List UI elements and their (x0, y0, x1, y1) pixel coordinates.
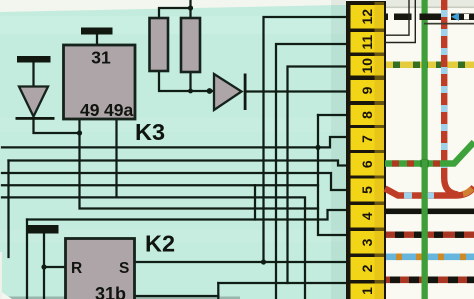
svg-text:K2: K2 (145, 231, 175, 257)
svg-text:8: 8 (359, 111, 375, 119)
wire ground stem to K3 pin 31 (96, 35, 98, 46)
junction dot S wire (261, 259, 266, 264)
wire H2 to pin 6 (9, 161, 350, 166)
junction dot diode V1 to pin49 (77, 130, 82, 135)
junction dot ground K2 (41, 264, 46, 269)
right page white background (384, 0, 474, 299)
wire ground stem to diode V1 (32, 63, 34, 87)
wire H4 (2, 184, 318, 186)
right panel: green vertical wire (422, 0, 428, 299)
wire K2 pin 31b (135, 295, 219, 297)
connector pin cell 5 (351, 179, 385, 202)
wire K2 pin S to pin 2 (135, 261, 350, 263)
diode V2 triangle (214, 74, 242, 110)
svg-text:31b: 31b (95, 284, 126, 299)
wire resistor R4 bottom (159, 71, 214, 91)
blue connector mark on black wire (451, 13, 459, 22)
svg-text:5: 5 (359, 186, 375, 194)
wire resistor R5 bottom (189, 72, 191, 91)
relay K3 box (64, 45, 136, 119)
svg-text:9: 9 (359, 86, 375, 94)
wire bottom drop (217, 283, 219, 299)
connector pin cell 6 (351, 153, 385, 176)
thin black line under dashed wire right part (424, 23, 474, 25)
wire H5 to pin 4 (2, 197, 305, 299)
connector pin cell 10 (351, 56, 385, 76)
wire left corner down (26, 220, 28, 299)
wire pin 11 long (276, 44, 349, 299)
green vertical over horizontals (redraw to sit on top) (422, 160, 428, 299)
left edge white sliver (0, 252, 2, 299)
svg-text:49a: 49a (104, 100, 133, 120)
junction dot H1 pin8 branch (315, 145, 320, 150)
wire H7 to pin 3 vertical (27, 210, 349, 220)
ground symbol G1 bar (17, 56, 51, 63)
bottom-left white page corner (0, 291, 12, 299)
wire diode V1 cathode stem (34, 119, 80, 134)
wire ground to K2 pin R (44, 266, 66, 268)
diode V1 triangle (19, 87, 48, 117)
junction dot resistor top (188, 5, 193, 10)
svg-text:11: 11 (359, 35, 375, 50)
right panel: red wire pin 3 with black dashes (386, 232, 474, 238)
svg-text:3: 3 (359, 238, 375, 246)
ground symbol G2 bar (above K3) (81, 28, 113, 35)
wire mid vertical (254, 185, 256, 219)
ground symbol G3 bar (above K2) (27, 225, 59, 234)
svg-text:4: 4 (359, 212, 375, 220)
connector X1 black frame (346, 1, 386, 299)
wire pin 12 long (264, 17, 350, 262)
right panel: black solid wire pin 4 (386, 209, 474, 215)
bottom-left page shadow (0, 297, 240, 299)
right panel: white wire pin 11 (outline) (385, 0, 415, 43)
scan light streaks (0, 16, 345, 34)
wire ground stem K2 down (43, 234, 45, 299)
diode V1 cathode bar (16, 117, 55, 120)
connector pin cell 2 (351, 257, 385, 280)
right panel: red wire pin 1 with black dashes (386, 277, 474, 284)
connector pin cell 4 (351, 205, 385, 228)
diode V2 cathode bar (244, 74, 247, 111)
wire vertical x318 down to pin 3 (318, 115, 349, 235)
wire branch H1 to pin 8 (318, 114, 349, 116)
svg-text:12: 12 (359, 9, 375, 25)
wire K3 pin 49 down to H6 (80, 119, 319, 209)
svg-text:49: 49 (80, 100, 100, 120)
right panel: red/blue vertical wire joining pin 5 wire (444, 0, 458, 195)
svg-text:7: 7 (359, 135, 375, 143)
wire K3 pin 49a down to H5 (115, 119, 117, 197)
connector pin cell 11 (351, 32, 385, 53)
svg-text:S: S (119, 260, 129, 277)
wire top feed to resistors (189, 0, 191, 18)
wire H1 to pin 7 (2, 137, 349, 147)
right panel top grey band (386, 0, 474, 7)
svg-text:6: 6 (359, 160, 375, 168)
connector shading (375, 2, 385, 299)
wire resistor top bar (159, 8, 191, 18)
connector pin cell 8 (351, 105, 385, 125)
wire H3 to pin 5 (2, 173, 349, 190)
resistor R4 (150, 18, 169, 71)
right panel: yellow wire pin 10 (386, 62, 474, 69)
right panel: green wire pin 6 with red dashes, diagonal exit (385, 142, 474, 164)
top page-edge band (0, 0, 474, 12)
wire left stub vertical (7, 161, 9, 258)
svg-text:2: 2 (359, 264, 375, 272)
right panel top edge line (386, 7, 474, 9)
wire pin 10 long (288, 67, 350, 284)
junction dot resistor bottom (188, 89, 193, 94)
right panel: light blue wire pin 2 with orange dashes (386, 254, 474, 261)
connector pin cell 9 (351, 80, 385, 101)
connector pin cell 12 (351, 5, 385, 29)
right panel: black dashed wire pin 12 (386, 14, 474, 21)
wire diode V2 output to pin 9 (245, 90, 349, 92)
svg-text:1: 1 (359, 287, 375, 295)
black wire patch over green vertical (421, 14, 429, 21)
junction blob on green vertical (421, 160, 429, 168)
right panel: red wire pin 5 with blue dashes (385, 187, 474, 196)
wire to pin 1 (218, 282, 349, 284)
svg-text:K3: K3 (135, 119, 165, 145)
resistor R5 (181, 18, 200, 72)
junction dot diode V2 anode (207, 88, 213, 94)
svg-text:10: 10 (359, 58, 375, 74)
svg-text:R: R (71, 260, 82, 277)
connector pin cell 1 (351, 284, 385, 299)
connector pin cell 3 (351, 231, 385, 254)
connector pin cell 7 (351, 128, 385, 150)
relay K2 box (66, 239, 135, 299)
gutter shadow near connector (331, 0, 346, 299)
svg-text:31: 31 (91, 48, 111, 68)
